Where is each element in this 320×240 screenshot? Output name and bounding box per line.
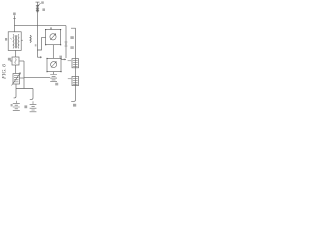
svg-text:FIG. 6: FIG. 6 <box>2 64 8 80</box>
